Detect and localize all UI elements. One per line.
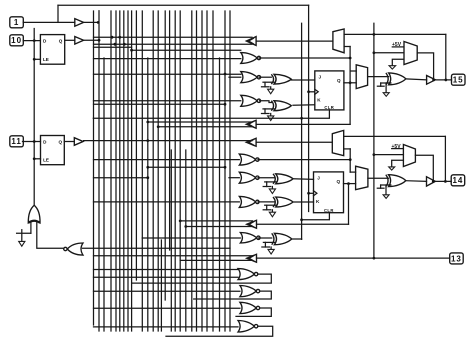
wire mux A lower right pin [344,46,350,48]
svg-text:10: 10 [11,36,22,45]
wire G2 output U-turn [194,291,272,299]
XO1 ground hook [389,82,391,84]
CLR rail vertical x301 [301,23,303,239]
bus vertical wire x=104.0 [103,58,105,331]
left buffer T3 (mux D output) [246,138,256,146]
bus vertical wire x=116.0 [115,11,117,331]
bus vertical wire x=230.0 [229,11,231,331]
wire wrap drop to pad15 [445,34,447,80]
wire B14 to pad14 [435,180,451,182]
wire LE U1 [34,58,40,60]
wire N6 out to X6 [258,201,274,203]
left buffer T4 (Q2 feedback) [247,220,257,228]
wire mux D lower right pin [344,148,351,150]
XOR gate X5 (J2 driver) [276,174,293,184]
bus horizontal wire y=104.3 [94,103,226,105]
bus horizontal wire y=47.3 [94,46,132,48]
wire X7 out to CLR rail [292,238,302,240]
OR gate OL (points up, drives LE rail) [28,205,40,223]
wire JK1 CLR [93,110,329,118]
wire Q2 feedback vertical [348,184,350,225]
XOR gate X6 (K2 driver) [276,197,293,207]
XO2 ground hook [389,184,391,186]
svg-text:13: 13 [451,254,462,263]
bus vertical wire x=153.2 [152,11,154,331]
bus vertical wire x=171.3 [170,150,172,331]
wire B1 out [84,21,99,23]
bus vertical wire x=128.0 [127,11,129,331]
ground hook of X4 [263,108,275,110]
output pad 14 [451,175,465,186]
wire K1 input [293,104,315,106]
NOR gate N5 [239,172,255,183]
bus horizontal wire y=159.6 [94,159,240,161]
svg-text:J: J [317,175,320,180]
NOR gate N3 [241,95,257,106]
bus vertical wire x=219.5 [219,58,221,331]
wire clock vertical [308,5,310,211]
bus horizontal wire y=58.6 [94,58,241,60]
wire pad11 to U2 D [23,141,41,143]
buffer B2 (latch U1 Q) [75,37,84,45]
XOR gate XO2 (pad 14 driver) [389,175,406,187]
wire clk to JK1 [309,91,315,93]
mux D (left-pointing) [332,130,343,155]
wire N5 out to X5 [258,177,274,179]
buffer B1 (pad 1) [75,19,84,27]
mux B (+5V mux, stage 1) [404,42,417,65]
bus vertical wire x=99.0 [98,11,100,331]
XOR gate X4 (K1 driver) [274,101,291,111]
NOR gate G2 [240,286,256,297]
junction [224,166,227,169]
svg-text:11: 11 [11,137,21,146]
bus vertical wire x=191.8 [191,11,193,331]
wire JK2 Q to mux F [344,183,356,185]
left buffer T5 (pad 13 net) [247,254,257,262]
bus horizontal wire y=50.2 [132,49,241,51]
XOR gate X7 (CLR driver) [274,233,291,244]
bus vertical wire x=158.2 [157,11,159,331]
bus vertical wire x=185.8 [185,150,187,331]
left buffer T2 (Q1 feedback) [246,120,256,128]
bus horizontal wire y=177.7 [94,177,148,179]
bus horizontal wire y=260.4 [180,259,252,261]
wire LE U2 [34,158,40,160]
bus horizontal wire y=326.9 [94,326,239,328]
mux E unused pin stub [392,160,404,167]
svg-text:J: J [319,74,322,79]
wire T1 input from mux A [256,40,333,42]
T2 bus stub bottom [158,126,252,128]
wire mux E output drop [415,155,433,181]
bus vertical wire x=131.6 [131,11,133,331]
wire JK1 Q to mux C [344,82,356,84]
svg-text:Q: Q [337,78,341,83]
mux E (+5V mux, stage 2) [403,145,415,167]
bus horizontal wire y=277.2 [94,276,239,278]
wire JK2 CLR [302,213,330,220]
D latch U1 (pad 10) [40,35,64,65]
bus horizontal wire y=269.5 [94,269,239,271]
wire +5V mid input mux B [374,52,404,54]
T4 bus stub top [180,220,252,222]
output pad 13 [450,253,464,264]
wire U1 Q to B2 [65,39,75,41]
bus vertical wire x=123.8 [123,11,125,331]
mux C (after JK1) [356,65,367,89]
wire mux C out to XO1 [368,76,389,78]
wire Q2 feedback to T4 [257,223,349,225]
NOR gate G4 [238,321,254,333]
wire K2 input [293,201,314,203]
T1 bus stub bottom [94,43,253,45]
junction [146,176,149,179]
wire pad1 to B1 [23,21,75,23]
bus horizontal wire y=74.2 [94,73,241,75]
bus vertical wire x=136.4 [135,11,137,280]
T2 bus stub top [148,121,252,123]
bus horizontal wire y=201.9 [94,201,240,203]
bus vertical wire x=207.0 [206,11,208,331]
bus horizontal wire y=291.3 [94,290,240,292]
wire top clock rail [58,4,309,6]
T4 bus stub bottom [186,226,253,228]
output pad 15 [452,74,466,85]
wire B15 to pad15 [435,79,451,81]
bus horizontal wire y=177.7 [229,177,239,179]
D latch U2 (pad 11) [41,136,65,165]
bus vertical wire x=169.6 [169,11,171,250]
buffer B3 (latch U2 Q) [74,138,83,146]
wire mux B output drop [417,53,433,80]
left buffer T1 [246,37,256,46]
svg-text:Q: Q [337,179,341,184]
ground symbol at OL left input [30,222,32,233]
bus horizontal wire y=167.3 [148,166,225,168]
junction [224,73,227,76]
bus vertical wire x=180.2 [179,11,181,331]
+5V rail vertical x374 [373,23,375,258]
bus vertical wire x=142.3 [141,11,143,331]
junction [146,166,149,169]
bus vertical wire x=165.2 [164,11,166,300]
junction [224,103,227,106]
bus vertical wire x=213.0 [212,11,214,331]
bus vertical wire x=119.8 [119,11,121,331]
wire N3 out to X4 [260,101,272,103]
wire XO2 out to B14 [406,180,427,183]
mux F (after JK2) [356,166,368,190]
input pad 1 [10,17,23,28]
T1 bus stub top [94,36,253,38]
bus vertical wire x=202.0 [201,11,203,331]
bus horizontal wire y=308.3 [94,307,240,309]
wire N7 out to X7 [259,237,272,239]
bus vertical wire x=93.5 [93,11,95,325]
input pad 11 [10,136,23,147]
NOR gate NL (left-pointing) [67,243,83,255]
wire G3 output U-turn [236,308,271,316]
NOR gate N4 [239,154,255,165]
bus horizontal wire y=248.3 [83,247,231,249]
JK flip-flop U4 [314,172,344,213]
wire XO1 out to B15 [406,79,427,80]
svg-text:LE: LE [43,158,49,163]
wire N2 out to X3 [259,76,271,78]
wire G1 output U-turn [132,274,272,283]
svg-text:CLR: CLR [324,208,334,213]
wire +5V mid input mux E [374,154,404,156]
ground hook of X6 [265,204,277,206]
NOR gate G3 [240,302,256,313]
bus vertical wire x=161.4 [160,240,162,331]
junction [130,49,133,52]
wire pad10 to U1 D [23,40,40,42]
bus horizontal wire y=100.8 [94,100,241,102]
NOR gate N7 [240,233,256,244]
wire N1 out to node [259,57,350,59]
wire mux D top pin wrap to pad14 [344,135,446,137]
svg-text:14: 14 [452,176,463,185]
output buffer B15 [427,76,436,85]
NOR gate N6 [239,196,255,207]
wire wrap drop to pad14 [444,136,446,181]
ground hook of X5 [265,181,277,183]
node vertical x350 (stage1) [349,47,351,125]
bus horizontal wire y=77.2 [229,76,241,78]
wire to mux F top input [350,171,355,173]
svg-text:Q: Q [59,140,63,145]
LE rail vertical [33,29,35,206]
wire B3 out into bus [84,140,252,142]
wire pad1 riser [57,5,59,22]
bus vertical wire x=111.0 [110,11,112,331]
bus vertical wire x=225.0 [224,11,226,331]
wire G4 output U-turn [166,326,273,336]
ground hook of X7 [263,241,275,243]
wire pad13 long net [257,257,450,259]
wire mux F out to XO2 [368,177,389,179]
NOR gate G1 [238,269,254,280]
wire T3 input from mux D [256,141,332,143]
bus vertical wire x=196.5 [196,11,198,331]
wire OL right input from NL output [37,222,64,248]
svg-text:1: 1 [14,18,19,27]
bus vertical wire x=175.2 [174,11,176,331]
svg-text:15: 15 [453,76,464,85]
JK flip-flop U3 [315,71,344,110]
ground hook of X3 [263,81,275,83]
XOR gate X3 (J1 driver) [274,74,291,84]
wire Q1 feedback to T2 [256,123,350,125]
wire mux A top pin wrap to pad15 [344,33,446,35]
wire J2 input [293,178,314,181]
output buffer B14 [427,177,436,186]
mux A (left-pointing) [333,29,344,53]
input pad 10 [10,35,23,46]
node vertical x350 (stage2) [349,149,351,172]
bus horizontal wire y=238.0 [142,237,240,239]
wire clk to JK2 [309,192,314,194]
svg-text:LE: LE [43,57,49,62]
wire N4 out to node [258,159,350,161]
bus vertical wire x=147.8 [147,58,149,331]
wire B2 out [84,39,99,41]
wire U2 Q to B3 [64,141,74,143]
NOR gate N1 [241,53,257,64]
wire to mux C top input [350,70,356,72]
wire J1 input [291,79,315,81]
NOR gate N2 [241,72,257,83]
mux B unused pin stub [392,59,403,65]
svg-text:Q: Q [59,39,63,44]
bus horizontal wire y=255.8 [94,255,253,257]
XOR gate XO1 (pad 15 driver) [389,73,406,85]
